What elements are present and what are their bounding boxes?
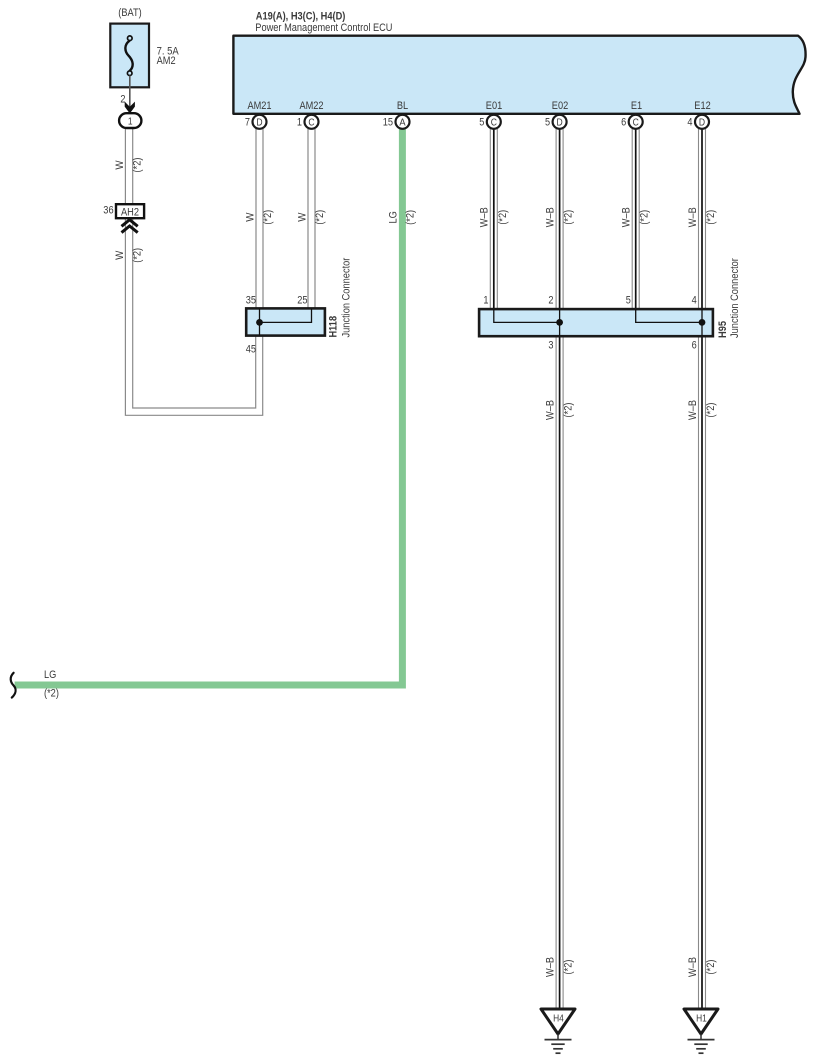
svg-text:(*2): (*2)	[705, 960, 717, 975]
svg-text:1: 1	[483, 295, 488, 307]
svg-text:W–B: W–B	[545, 957, 557, 977]
svg-text:LG: LG	[44, 669, 56, 681]
svg-text:(*2): (*2)	[44, 688, 59, 700]
svg-text:Junction Connector: Junction Connector	[729, 258, 741, 338]
svg-text:W: W	[296, 212, 308, 222]
svg-text:D: D	[557, 117, 563, 128]
svg-text:(*2): (*2)	[705, 210, 717, 225]
svg-text:4: 4	[687, 117, 692, 129]
svg-text:(*2): (*2)	[405, 210, 417, 225]
svg-text:7: 7	[245, 117, 250, 129]
svg-text:(*2): (*2)	[262, 210, 274, 225]
svg-text:6: 6	[692, 340, 697, 352]
svg-text:W: W	[114, 160, 126, 170]
svg-text:A: A	[399, 117, 406, 128]
svg-text:E12: E12	[694, 100, 710, 112]
svg-text:E02: E02	[552, 100, 568, 112]
svg-text:1: 1	[128, 117, 133, 128]
svg-text:H95: H95	[717, 321, 729, 338]
svg-text:W–B: W–B	[545, 400, 557, 420]
svg-text:(*2): (*2)	[563, 960, 575, 975]
svg-text:3: 3	[548, 340, 553, 352]
svg-text:AH2: AH2	[121, 206, 139, 218]
svg-text:AM2: AM2	[157, 55, 176, 67]
svg-text:BL: BL	[397, 100, 408, 112]
svg-text:W–B: W–B	[621, 207, 633, 227]
svg-text:C: C	[491, 117, 497, 128]
svg-text:(*2): (*2)	[314, 210, 326, 225]
svg-text:Junction Connector: Junction Connector	[341, 257, 353, 337]
svg-text:(*2): (*2)	[705, 403, 717, 418]
svg-text:(*2): (*2)	[132, 248, 144, 263]
svg-text:LG: LG	[388, 211, 400, 223]
svg-text:D: D	[699, 117, 705, 128]
svg-text:W: W	[114, 250, 126, 260]
svg-text:H4: H4	[553, 1013, 564, 1024]
svg-text:15: 15	[383, 117, 393, 129]
svg-text:(*2): (*2)	[563, 403, 575, 418]
svg-text:(BAT): (BAT)	[118, 7, 141, 19]
svg-text:E01: E01	[486, 100, 502, 112]
svg-text:W–B: W–B	[479, 207, 491, 227]
svg-text:6: 6	[621, 117, 626, 129]
svg-text:25: 25	[297, 295, 307, 307]
svg-text:H1: H1	[696, 1013, 707, 1024]
svg-text:D: D	[256, 117, 262, 128]
svg-text:(*2): (*2)	[639, 210, 651, 225]
svg-text:4: 4	[692, 295, 697, 307]
svg-text:W–B: W–B	[545, 207, 557, 227]
svg-text:2: 2	[548, 295, 553, 307]
svg-text:E1: E1	[631, 100, 642, 112]
svg-text:W–B: W–B	[687, 400, 699, 420]
svg-text:(*2): (*2)	[563, 210, 575, 225]
svg-text:W–B: W–B	[687, 957, 699, 977]
svg-text:5: 5	[545, 117, 550, 129]
svg-text:C: C	[308, 117, 314, 128]
svg-text:35: 35	[246, 295, 256, 307]
svg-text:H118: H118	[328, 316, 340, 338]
svg-text:36: 36	[103, 205, 113, 217]
svg-text:W: W	[244, 212, 256, 222]
svg-text:(*2): (*2)	[132, 158, 144, 173]
svg-text:45: 45	[246, 344, 256, 356]
svg-text:1: 1	[297, 117, 302, 129]
svg-text:5: 5	[626, 295, 631, 307]
svg-text:Power Management Control ECU: Power Management Control ECU	[255, 22, 392, 34]
svg-text:5: 5	[479, 117, 484, 129]
svg-text:A19(A), H3(C), H4(D): A19(A), H3(C), H4(D)	[256, 10, 346, 22]
svg-text:W–B: W–B	[687, 207, 699, 227]
svg-text:C: C	[633, 117, 639, 128]
svg-text:AM22: AM22	[299, 100, 323, 112]
svg-text:AM21: AM21	[247, 100, 271, 112]
svg-text:(*2): (*2)	[497, 210, 509, 225]
